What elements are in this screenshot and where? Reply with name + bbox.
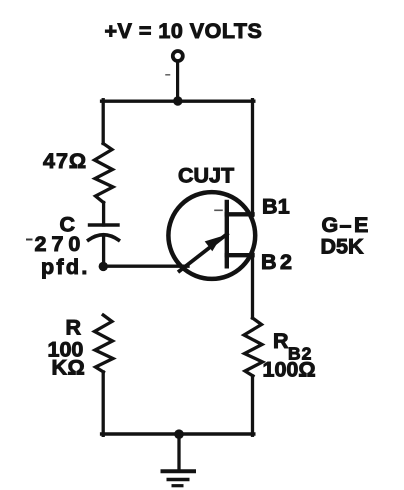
junction bottom rail [174, 429, 184, 439]
svg-text:1: 1 [278, 195, 290, 219]
wire 47 ohm to capacitor C [102, 203, 105, 226]
wire top rail [102, 99, 254, 102]
junction top rail [173, 96, 182, 105]
ground [161, 471, 197, 485]
wire bottom rail [102, 432, 254, 435]
svg-text:KΩ: KΩ [52, 356, 86, 380]
svg-text:CUJT: CUJT [178, 164, 234, 188]
label G - E D5K [322, 213, 369, 237]
resistor R 100K [95, 315, 114, 372]
wire RB2 to bottom rail [251, 376, 254, 435]
svg-text:R: R [66, 316, 82, 340]
resistor 47 ohm [95, 144, 114, 203]
wire node E to emitter [102, 265, 188, 268]
junction node E [99, 262, 108, 271]
transistor Q1 CUJT [168, 192, 255, 279]
svg-text:100Ω: 100Ω [263, 358, 316, 382]
resistor RB2 [244, 318, 263, 376]
wire capacitor C to node E [102, 237, 105, 266]
svg-text:270: 270 [35, 232, 86, 256]
wire right rail lower [251, 254, 254, 318]
capacitor C [90, 223, 119, 226]
wire left rail upper [102, 100, 105, 144]
svg-text:pfd.: pfd. [41, 255, 90, 279]
svg-text:R: R [273, 329, 289, 353]
wire right rail upper [251, 100, 254, 216]
svg-text:G: G [322, 213, 339, 237]
base lead B1 [227, 212, 253, 216]
wire to ground [177, 434, 180, 470]
svg-text:+V = 10 VOLTS: +V = 10 VOLTS [105, 19, 263, 43]
wire R to bottom rail [102, 372, 105, 435]
svg-text:D5K: D5K [321, 235, 364, 259]
svg-text:–: – [340, 213, 352, 237]
terminal +V [173, 51, 183, 61]
wire terminal to top rail [176, 61, 179, 100]
svg-text:B2: B2 [261, 250, 295, 274]
label B1 [262, 195, 290, 219]
svg-text:B: B [262, 195, 278, 219]
svg-text:47Ω: 47Ω [43, 149, 87, 173]
svg-text:E: E [354, 213, 368, 237]
base lead B2 [227, 253, 253, 257]
